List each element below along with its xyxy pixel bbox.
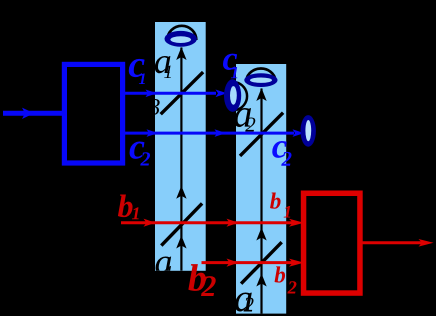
- svg-text:2: 2: [200, 270, 216, 303]
- svg-text:1: 1: [139, 71, 147, 88]
- svg-text:2: 2: [244, 293, 255, 316]
- svg-text:1: 1: [231, 63, 240, 82]
- svg-text:2: 2: [139, 148, 150, 170]
- svg-text:2: 2: [245, 112, 256, 136]
- svg-text:1: 1: [283, 202, 292, 222]
- svg-text:2: 2: [280, 147, 292, 171]
- svg-text:2: 2: [287, 279, 297, 299]
- svg-text:b: b: [274, 262, 286, 287]
- svg-text:1: 1: [131, 203, 140, 223]
- svg-text:b: b: [270, 189, 282, 214]
- svg-text:1: 1: [164, 62, 174, 83]
